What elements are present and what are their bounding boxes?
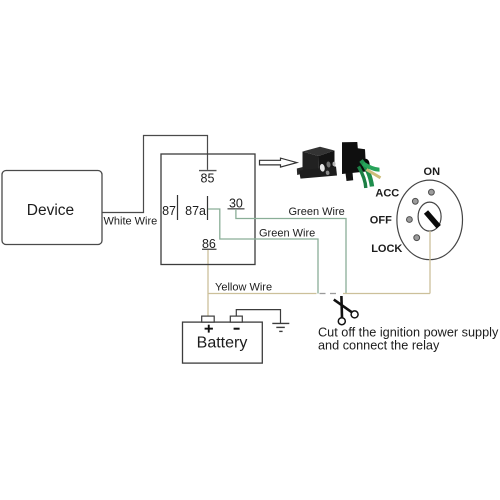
svg-text:ON: ON [424, 166, 441, 178]
svg-text:87: 87 [162, 204, 176, 218]
svg-text:85: 85 [201, 172, 215, 186]
svg-text:Green Wire: Green Wire [289, 206, 345, 218]
svg-text:Device: Device [27, 202, 74, 219]
svg-text:and connect the relay: and connect the relay [318, 339, 440, 353]
svg-text:LOCK: LOCK [371, 243, 402, 255]
svg-text:Cut off the ignition power sup: Cut off the ignition power supply [318, 325, 499, 339]
svg-text:White Wire: White Wire [104, 216, 158, 228]
svg-text:Yellow Wire: Yellow Wire [215, 282, 272, 294]
svg-text:OFF: OFF [370, 215, 392, 227]
svg-text:Battery: Battery [197, 335, 248, 352]
svg-text:ACC: ACC [375, 188, 399, 200]
svg-text:Green Wire: Green Wire [259, 228, 315, 240]
svg-text:87a: 87a [185, 204, 206, 218]
